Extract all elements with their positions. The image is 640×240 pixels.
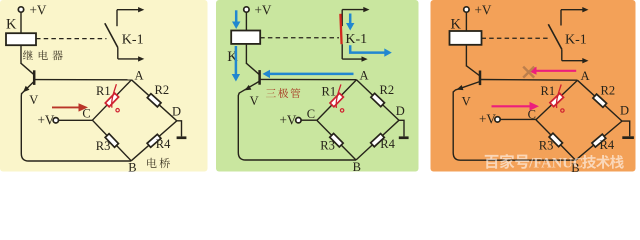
svg-text:C: C [307, 107, 315, 121]
svg-text:/FANUC: /FANUC [528, 155, 583, 171]
svg-text:A: A [581, 69, 590, 83]
svg-text:+V: +V [38, 113, 55, 128]
svg-text:R3: R3 [320, 139, 335, 153]
svg-text:R2: R2 [380, 83, 395, 97]
svg-text:R1: R1 [96, 84, 111, 98]
svg-text:R2: R2 [155, 83, 170, 97]
svg-text:K: K [6, 16, 17, 32]
svg-text:D: D [172, 105, 181, 119]
svg-text:K‑1: K‑1 [565, 32, 587, 47]
svg-text:+V: +V [475, 2, 492, 17]
svg-text:R3: R3 [539, 138, 554, 152]
svg-text:D: D [620, 103, 629, 117]
svg-text:R2: R2 [601, 83, 616, 97]
svg-text:A: A [135, 69, 144, 83]
svg-text:B: B [128, 161, 136, 175]
svg-text:+V: +V [479, 112, 496, 127]
svg-text:A: A [360, 69, 369, 83]
svg-text:R3: R3 [96, 139, 111, 153]
svg-text:+V: +V [280, 112, 297, 127]
svg-text:+V: +V [255, 2, 272, 17]
svg-text:+V: +V [30, 2, 47, 17]
svg-text:R1: R1 [541, 84, 556, 98]
svg-text:K‑1: K‑1 [345, 32, 367, 47]
svg-text:V: V [250, 94, 259, 108]
svg-text:R1: R1 [322, 84, 337, 98]
svg-text:R4: R4 [156, 137, 171, 151]
svg-text:K: K [451, 16, 462, 32]
svg-text:R4: R4 [380, 137, 395, 151]
svg-text:V: V [462, 94, 471, 108]
svg-text:K‑1: K‑1 [122, 32, 144, 47]
svg-text:B: B [353, 160, 361, 174]
svg-text:D: D [396, 104, 405, 118]
svg-text:R4: R4 [600, 138, 615, 152]
svg-text:V: V [29, 93, 38, 107]
